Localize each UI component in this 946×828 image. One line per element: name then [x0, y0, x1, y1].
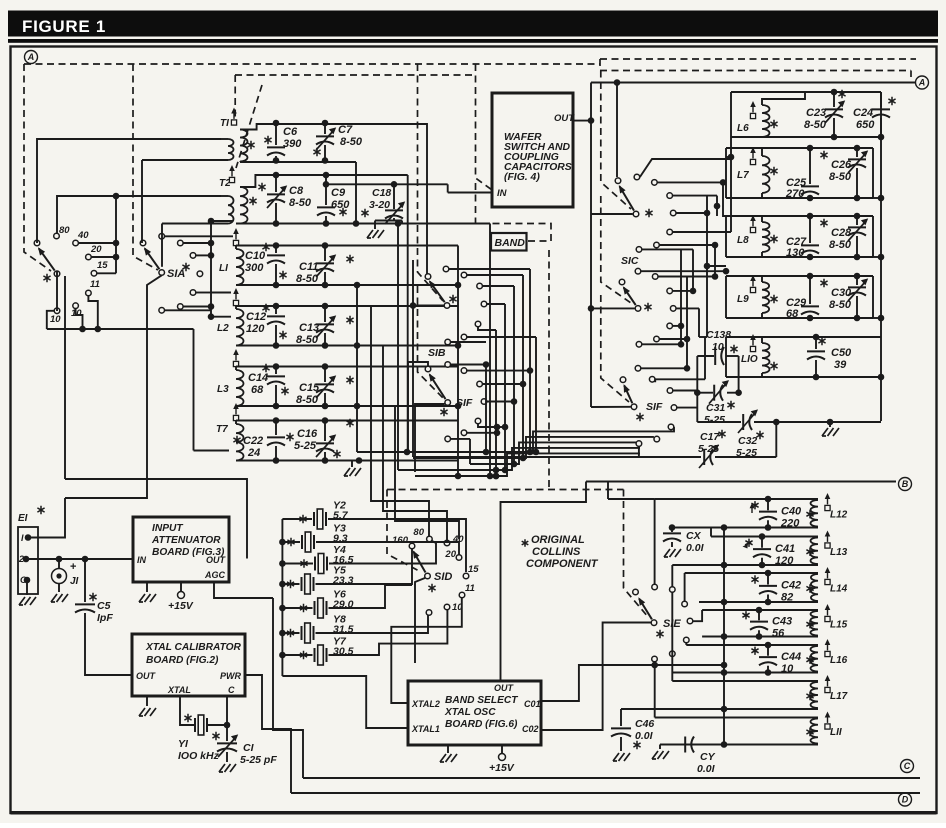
bundle U2 to S1F-f	[413, 437, 654, 458]
svg-text:390: 390	[283, 138, 302, 150]
wire S1Fr-d to C32 riser	[677, 407, 698, 409]
B rail	[586, 481, 896, 483]
wire band bus to T7 tap	[193, 329, 195, 451]
dashed connector	[599, 59, 601, 71]
S1B contact c	[477, 283, 483, 289]
wire 40-bus	[79, 242, 116, 244]
wire S1Cu-b	[657, 181, 723, 183]
svg-text:XTAL OSC: XTAL OSC	[444, 707, 496, 718]
svg-text:80: 80	[59, 225, 70, 236]
svg-text:OUT: OUT	[494, 683, 515, 693]
svg-text:5-25: 5-25	[704, 414, 725, 426]
contact 11	[86, 290, 92, 296]
svg-text:BAND: BAND	[495, 237, 526, 249]
wire S1F-b	[467, 370, 530, 372]
switch S1B wiper	[430, 281, 445, 302]
wire wiper-1 to attenuator OUT riser	[64, 276, 66, 479]
L2 tank top wire	[236, 305, 458, 307]
svg-text:LIO: LIO	[741, 354, 758, 365]
wire S1Cl-c	[673, 290, 693, 292]
wafer OUT wire	[573, 120, 591, 122]
svg-text:BOARD (FIG.2): BOARD (FIG.2)	[146, 655, 219, 666]
wire S1Cu-g	[642, 248, 693, 250]
L2 coil	[236, 309, 244, 346]
svg-text:SIC: SIC	[621, 255, 639, 267]
svg-text:C32: C32	[738, 435, 757, 447]
wire Y4 to contact 80	[329, 541, 436, 564]
S1C lower contact e	[667, 323, 673, 329]
svg-text:C6: C6	[283, 126, 298, 138]
bundle riser x505	[504, 304, 506, 470]
capacitor C1 5-25pF	[226, 696, 228, 741]
S1C upper pole riser	[616, 83, 618, 178]
svg-text:C10: C10	[245, 250, 266, 262]
svg-text:10: 10	[71, 308, 82, 319]
switch S1E wiper	[639, 599, 652, 620]
capacitor C9 650	[325, 175, 327, 205]
L11 bottom	[660, 744, 818, 746]
ground CX	[664, 549, 681, 557]
svg-text:C02: C02	[522, 724, 539, 734]
L16 bottom	[672, 672, 818, 674]
svg-text:8-50: 8-50	[296, 334, 319, 346]
S1D contact 40	[444, 540, 450, 546]
T1 secondary coil	[240, 130, 248, 162]
S1B wiper bus riser	[412, 260, 414, 457]
capacitor C44 10	[765, 642, 772, 649]
gang link to S1 wiper 1 (dashed)	[24, 64, 51, 271]
wire S1B-b	[467, 274, 523, 276]
switch S1F-right wiper	[624, 385, 632, 403]
A rail	[591, 82, 915, 84]
C31 box left / C32 riser	[696, 356, 698, 422]
inductor L8	[750, 227, 755, 232]
svg-text:AGC: AGC	[204, 570, 226, 580]
riser S1E-b/f to L17 top	[671, 592, 673, 681]
wire S1Fr-b	[655, 379, 705, 382]
switch S1C lower wiper	[624, 288, 636, 306]
wire S1F-a	[451, 364, 486, 366]
L2 tank bottom wire	[236, 345, 458, 347]
svg-text:0.0I: 0.0I	[635, 730, 654, 742]
node B	[899, 478, 912, 491]
svg-text:OUT: OUT	[206, 555, 227, 565]
svg-text:C22: C22	[243, 435, 263, 447]
inductor L10	[750, 346, 755, 351]
C rail	[303, 777, 920, 779]
svg-text:A: A	[27, 52, 35, 62]
crystal Y1 100kHz	[180, 696, 195, 725]
S1F-left pole wire	[408, 362, 428, 452]
node A (top-right)	[916, 76, 929, 89]
svg-text:COMPONENT: COMPONENT	[526, 558, 599, 570]
svg-text:ORIGINAL: ORIGINAL	[531, 534, 585, 546]
gang link to S1C lower (dashed)	[601, 196, 631, 303]
S1E contact c	[682, 601, 688, 607]
tap wire	[211, 235, 233, 237]
svg-text:T7: T7	[216, 424, 228, 435]
svg-text:C24: C24	[853, 107, 873, 119]
svg-text:L14: L14	[830, 584, 848, 595]
wafer switch and coupling capacitors board (FIG.4)	[492, 93, 573, 207]
svg-text:L3: L3	[217, 384, 229, 395]
wire S1-1 pole to T1 primary top	[37, 139, 221, 243]
L11 top	[655, 717, 818, 719]
T7 tank top wire	[236, 420, 458, 422]
S1A contact a	[159, 234, 165, 240]
svg-text:3-20: 3-20	[369, 199, 390, 211]
S1F-left contact e	[475, 418, 481, 424]
svg-text:C12: C12	[246, 311, 266, 323]
S1E contact b	[670, 587, 676, 593]
wire S1Cl-d	[676, 307, 699, 309]
wire S1Fr-g to C17	[639, 446, 701, 457]
gang linkage rail right (dashed)	[600, 70, 911, 72]
capacitor C6 390	[275, 123, 277, 145]
S1F-right pole contact	[620, 377, 626, 383]
capacitor C11 8-50	[324, 246, 326, 262]
S1C lower contact g	[636, 342, 642, 348]
inductor L6	[750, 113, 755, 118]
wire T2 primary bottom to S1A wiper	[161, 224, 163, 267]
inductor L7	[750, 159, 755, 164]
svg-text:15: 15	[97, 260, 108, 271]
AGC wire to C rail	[273, 598, 303, 778]
L17 top	[672, 680, 818, 682]
capacitor C22 24	[275, 421, 277, 436]
svg-text:C14: C14	[248, 372, 268, 384]
S1C upper contact g	[636, 247, 642, 253]
svg-text:300: 300	[245, 262, 264, 274]
wire S1A-f to tap bus	[183, 306, 211, 308]
wire S1Fr-a	[641, 367, 687, 369]
wire S1F-f	[467, 432, 497, 434]
S1C upper contact b	[652, 180, 658, 186]
svg-text:C26: C26	[831, 159, 852, 171]
gang link to S1A (dashed)	[133, 64, 158, 270]
svg-text:(FIG. 4): (FIG. 4)	[504, 172, 540, 183]
crystal Y8 31.5	[282, 632, 299, 634]
L16 top	[686, 644, 818, 646]
S1A wiper leg to E1-1	[65, 275, 162, 498]
C17 riser	[775, 422, 777, 457]
wire S1F-g	[451, 438, 470, 440]
contact 40	[73, 240, 79, 246]
capacitor C15 8-50	[324, 367, 326, 383]
wire S1B-f	[467, 336, 536, 338]
svg-text:8-50: 8-50	[289, 197, 312, 209]
tank row right bus	[457, 246, 459, 461]
svg-text:C16: C16	[297, 428, 318, 440]
L6 tank bottom	[731, 136, 881, 138]
wire S1B-g	[451, 341, 486, 343]
S1D contact 10	[444, 604, 450, 610]
svg-text:C31: C31	[706, 402, 725, 414]
switch S1A wiper	[145, 249, 160, 270]
svg-text:80: 80	[413, 527, 424, 538]
capacitor CX 0.01	[669, 524, 676, 531]
svg-text:C: C	[904, 761, 911, 771]
ground E1-G	[19, 597, 36, 605]
capacitor C46 0.01	[620, 709, 622, 726]
inductor L12	[810, 500, 818, 527]
svg-text:SIF: SIF	[646, 401, 663, 413]
capacitor C14 68	[275, 367, 277, 375]
crystal Y3 9.3	[282, 541, 300, 543]
switch S1C upper wiper	[620, 186, 635, 210]
svg-text:YI: YI	[178, 738, 189, 750]
svg-text:XTAL2: XTAL2	[411, 699, 440, 709]
svg-text:SIF: SIF	[456, 397, 473, 409]
L3 coil	[236, 370, 244, 406]
gang link to S1E (dashed)	[624, 490, 650, 619]
wire to INPUT ATTENUATOR OUT	[65, 479, 247, 559]
bundle U5	[415, 453, 640, 476]
svg-text:EI: EI	[18, 513, 28, 524]
terminal strip E1	[18, 527, 38, 594]
wire T1 bottom to T2 bottom	[355, 162, 357, 224]
arrow mark C40	[751, 505, 753, 513]
contact 15	[91, 271, 97, 277]
svg-text:8-50: 8-50	[829, 299, 852, 311]
svg-text:L15: L15	[830, 619, 848, 630]
node D	[899, 793, 912, 806]
svg-text:68: 68	[786, 308, 799, 320]
S1F-left pole contact	[425, 366, 431, 372]
wire L2 bottom to S1D-40	[383, 346, 447, 541]
wire S1Cu-f	[660, 244, 716, 246]
svg-text:39: 39	[834, 359, 847, 371]
wire wiper bus to S1C lower	[591, 307, 635, 309]
S1A contact b	[178, 240, 184, 246]
S1F-left contact c	[477, 381, 483, 387]
ground attenuator	[139, 594, 156, 602]
tap into L2 coil	[211, 316, 231, 318]
svg-text:82: 82	[781, 592, 793, 604]
svg-text:68: 68	[251, 384, 264, 396]
wire S1Cu-e	[673, 231, 731, 233]
wire S1A-e to tap bus	[196, 292, 211, 294]
S1F-right contact d	[671, 405, 677, 411]
wire T2 bottom to bundle 2	[397, 224, 399, 471]
L12 left edge to S1E-a	[654, 499, 656, 584]
svg-text:C41: C41	[775, 543, 795, 555]
svg-text:A: A	[918, 78, 926, 88]
capacitor C13 8-50	[324, 306, 326, 322]
capacitor C28 8-50	[856, 216, 858, 225]
L14 bottom	[699, 601, 818, 603]
gang sub-rail T1/S1B (dashed)	[235, 74, 476, 76]
wire Y6 to S1D common	[329, 585, 413, 608]
ground C46	[613, 753, 630, 761]
wire OUT to B rail	[501, 482, 587, 682]
gang link to S1F right (dashed)	[601, 295, 629, 402]
svg-text:5-25: 5-25	[698, 443, 719, 455]
inductor L14	[811, 574, 818, 601]
feeder x687 upper	[686, 277, 688, 369]
S1F-left contact b	[461, 368, 467, 374]
gang link to S1F-left (dashed)	[418, 286, 444, 398]
svg-text:C50: C50	[831, 347, 852, 359]
S1A contact c	[190, 253, 196, 259]
ground xtal cal	[139, 708, 156, 716]
feeder x707	[706, 196, 708, 337]
svg-text:11: 11	[465, 583, 475, 594]
wire S1A-g to tap bus	[165, 309, 211, 311]
wire Y5 to contact 160	[316, 549, 413, 584]
S1B contact a	[443, 266, 449, 272]
svg-text:L7: L7	[737, 170, 749, 181]
D rail	[291, 792, 920, 794]
wire 11 to band bus	[88, 296, 97, 329]
wire C5 to xtal cal OUT	[85, 613, 132, 675]
svg-text:BAND SELECT: BAND SELECT	[445, 695, 518, 706]
crystal Y4 16.5	[282, 563, 313, 565]
L15 top	[702, 609, 818, 611]
bundle U4	[398, 448, 640, 470]
bottom-right common bus	[723, 528, 725, 745]
svg-text:5-25 pF: 5-25 pF	[240, 754, 277, 766]
svg-text:D: D	[902, 795, 909, 805]
inductor L13	[810, 538, 818, 565]
svg-text:C8: C8	[289, 185, 304, 197]
svg-text:10: 10	[781, 663, 794, 675]
gang link to S1B (dashed)	[418, 64, 444, 301]
svg-text:C13: C13	[299, 322, 319, 334]
dashed stub	[910, 71, 912, 78]
L13 top jog to L12 bottom	[710, 528, 712, 537]
gang link through T1/T2 slugs (dashed)	[236, 85, 262, 168]
svg-text:650: 650	[331, 199, 350, 211]
L14 top	[685, 572, 818, 574]
wire S1F-e	[478, 424, 497, 427]
wire S1Cl-a	[641, 270, 726, 272]
svg-text:+15V: +15V	[168, 600, 194, 612]
S1F-right contact f	[654, 436, 660, 442]
L1 coil	[236, 249, 244, 285]
svg-text:8-50: 8-50	[829, 239, 852, 251]
svg-text:C: C	[228, 685, 235, 695]
input attenuator board (FIG.3)	[133, 517, 229, 582]
S1C upper contact c	[667, 193, 673, 199]
band select xtal osc board (FIG.6)	[408, 681, 541, 745]
crystal bus to XTAL1	[282, 676, 408, 728]
gang link to T1 slug (dashed)	[234, 75, 236, 117]
wire S1A-c to tap bus	[196, 254, 211, 256]
ground C1	[219, 764, 236, 772]
svg-text:+: +	[70, 561, 76, 573]
svg-text:15: 15	[468, 564, 479, 575]
inductor L16	[811, 646, 819, 672]
svg-text:LII: LII	[830, 727, 842, 738]
transformer T1 primary winding	[228, 139, 234, 160]
wire 80 contact to T2 primary top	[57, 196, 221, 234]
inductor L15	[810, 611, 818, 636]
tap wire L2	[211, 292, 231, 294]
capacitor C25 270	[809, 148, 811, 184]
S1D wiper leg	[415, 578, 425, 663]
connector J1	[52, 569, 67, 584]
svg-text:C23: C23	[806, 107, 826, 119]
S1C lower contact b	[652, 274, 658, 280]
AGC wire	[214, 582, 273, 598]
node A (top-left)	[25, 51, 38, 64]
svg-text:PWR: PWR	[220, 671, 241, 681]
feeder x681	[680, 249, 682, 344]
transformer T2 primary winding	[228, 196, 234, 224]
svg-text:IpF: IpF	[97, 612, 113, 624]
svg-text:IN: IN	[137, 555, 147, 565]
S1B pole contact	[425, 274, 431, 280]
S1B contact g	[445, 339, 451, 345]
svg-text:11: 11	[90, 279, 100, 290]
tap into T2 coil	[211, 220, 233, 222]
svg-text:ATTENUATOR: ATTENUATOR	[151, 535, 221, 546]
svg-text:OUT: OUT	[554, 113, 575, 124]
S1E contact d	[687, 618, 693, 624]
feeder x717	[716, 196, 718, 216]
wire into wafer IN	[448, 192, 492, 194]
L10 top	[726, 336, 881, 338]
capacitor C50 39	[815, 337, 817, 349]
S1E pole contact	[633, 589, 639, 595]
svg-text:20: 20	[444, 549, 456, 560]
right vertical bus	[880, 92, 882, 421]
arrow mark C41	[745, 542, 751, 545]
svg-text:CX: CX	[686, 530, 702, 542]
S1C upper contact d	[670, 210, 676, 216]
L3 tank bottom wire	[236, 405, 458, 407]
T1 tank top wire	[240, 124, 427, 130]
crystal bank bus	[281, 519, 283, 676]
svg-text:XTAL1: XTAL1	[411, 724, 440, 734]
S1E contact a	[652, 584, 658, 590]
svg-text:40: 40	[77, 230, 89, 241]
crystal Y7 30.5	[282, 654, 312, 656]
svg-text:C43: C43	[772, 615, 792, 627]
wire T2 top to bundle	[407, 175, 409, 452]
svg-text:XTAL: XTAL	[167, 685, 191, 695]
feeder x715	[714, 245, 716, 277]
T7 coil	[236, 424, 244, 461]
svg-text:C28: C28	[831, 227, 852, 239]
BAND label box	[491, 233, 527, 251]
40/20/15 bus riser to T2 primary	[115, 196, 117, 273]
contact 20	[86, 254, 92, 260]
S1A contact e	[190, 290, 196, 296]
wire L2 tap to S1D-80	[371, 306, 429, 536]
svg-text:B: B	[902, 479, 909, 489]
S1B contact b	[461, 272, 467, 278]
T2 tank bottom wire	[236, 223, 490, 225]
+15V terminal osc board	[499, 754, 506, 761]
capacitor C12 120	[275, 306, 277, 314]
ground J1	[51, 594, 68, 602]
svg-text:8-50: 8-50	[340, 136, 363, 148]
wire S1Cu-c	[673, 195, 717, 197]
svg-text:C7: C7	[338, 124, 353, 136]
S1C lower contact a	[635, 268, 641, 274]
svg-text:CY: CY	[700, 751, 716, 763]
PWR wire to D rail	[245, 675, 291, 793]
svg-text:8-50: 8-50	[804, 119, 827, 131]
wire T1 primary bottom to S1A pole	[141, 160, 143, 243]
L12 top	[655, 498, 818, 500]
wire E1-2 to attenuator IN	[26, 558, 133, 560]
S1A contact d	[197, 271, 203, 277]
capacitor C30 8-50	[856, 276, 858, 285]
svg-text:L9: L9	[737, 294, 749, 305]
